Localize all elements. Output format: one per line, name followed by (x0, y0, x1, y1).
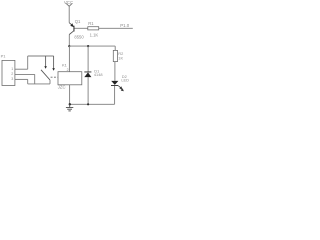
wire LED cathode down (114, 86, 116, 104)
svg-text:JZC: JZC (58, 84, 66, 89)
connector P1 box (2, 60, 15, 85)
wire VCC to Q1 emitter (68, 6, 70, 22)
wire arm stub to common (49, 80, 51, 84)
node ground junction dot (69, 103, 71, 105)
transistor Q1 emitter segment with PNP arrow (69, 23, 74, 27)
wire diode anode to bottom rail (87, 77, 89, 104)
relay contact NC fixed terminal (44, 56, 47, 69)
wire pin1 riser (27, 56, 29, 69)
diode D1 triangle (84, 72, 91, 77)
svg-text:8550: 8550 (74, 34, 84, 39)
svg-text:2: 2 (11, 72, 13, 76)
relay coil K1 box (58, 72, 82, 85)
transistor Q1 base bar (73, 26, 74, 32)
svg-text:1: 1 (11, 67, 13, 71)
svg-text:P1: P1 (1, 53, 7, 58)
relay contact NO fixed terminal (52, 56, 55, 71)
resistor R2 body (113, 50, 117, 61)
svg-text:LED: LED (121, 78, 129, 83)
LED D2 emission arrows (118, 86, 123, 91)
svg-text:R1: R1 (88, 21, 94, 26)
svg-text:1K: 1K (118, 56, 123, 61)
LED D2 triangle (111, 81, 118, 85)
diode D1 cathode bar (84, 71, 91, 74)
node diode bottom junction dot (87, 103, 89, 105)
wire pin1 stub (15, 68, 28, 70)
wire node to relay coil (68, 46, 70, 72)
wire collector node horizontal (69, 45, 115, 47)
wire Q1 collector down to node (68, 35, 70, 47)
node collector junction dot (68, 45, 70, 47)
wire bottom rail (70, 103, 115, 105)
wire pin3 dropper (27, 79, 29, 84)
svg-text:4148: 4148 (94, 72, 103, 77)
transistor Q1 collector segment (69, 31, 74, 35)
mechanical link dashed line (51, 76, 58, 78)
wire pin2 dropper (34, 74, 36, 84)
relay contact moving arm (41, 70, 50, 80)
svg-text:K1: K1 (62, 63, 68, 68)
wire pin2 stub (15, 73, 35, 75)
svg-text:P1.0: P1.0 (120, 23, 130, 28)
wire R2 to LED (114, 62, 116, 81)
svg-text:Q1: Q1 (75, 19, 81, 24)
wire diode branch down (87, 46, 89, 71)
wire top rail corner to R2 (114, 46, 116, 50)
wire relay coil to ground node (69, 85, 71, 105)
wire pin3 stub (15, 78, 28, 80)
LED D2 cathode bar (111, 84, 118, 87)
svg-text:3: 3 (11, 77, 13, 81)
wire common bottom horizontal (28, 83, 50, 85)
wire R1 to pad (99, 27, 133, 29)
ground symbol (66, 104, 73, 111)
resistor R1 body (88, 27, 99, 30)
svg-text:1.1K: 1.1K (90, 32, 99, 37)
wire Q1 base to R1 (75, 27, 88, 29)
node diode branch junction dot (87, 45, 89, 47)
power VCC arrow symbol (66, 3, 72, 6)
wire contact feed horizontal (28, 55, 54, 57)
